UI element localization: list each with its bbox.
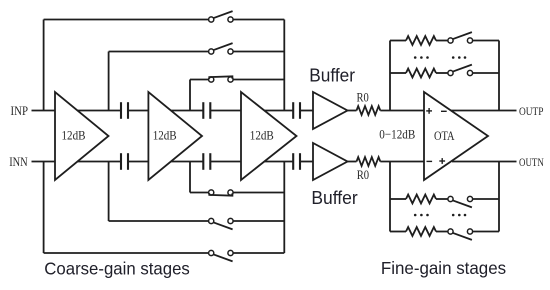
capacitor C2 (bottom, after stage 1) [120,153,122,170]
wire buffer B2 output [348,161,357,163]
capacitor C1 (top, after stage 1) [120,102,122,119]
wire INP lead [32,110,56,112]
amplifier A3 (12dB stage 3) [241,92,297,180]
wire top cap C5 to next stage [300,110,313,112]
wire tap1 vertical (INP to bypass row1) [43,20,45,111]
pin + (U1 bottom output polarity) [439,158,445,164]
switch S2 (top bypass row2) [209,43,234,54]
wire bypass row1 top right segment [233,19,284,21]
svg-text:Buffer: Buffer [309,66,355,86]
svg-text:OUTP: OUTP [519,104,544,118]
svg-text:Buffer: Buffer [311,188,357,208]
switch S3 (top bypass row3) [209,76,234,82]
wire bottom cap C2 to next stage [128,161,148,163]
wire feedback top branch1 left lead [390,40,406,42]
op-amp U1 OTA (fine-gain amplifier) [424,92,488,180]
wire tap1 vertical (INN to bypass row3 bottom) [43,162,45,254]
svg-text:OTA: OTA [434,128,455,143]
wire feedback bottom right vertical [498,162,500,232]
wire feedback bottom branch2 left lead [390,231,406,233]
wire feedback top branch2 left lead [390,72,406,74]
wire stage1 top output [77,110,121,112]
svg-text:12dB: 12dB [153,128,177,143]
buffer B2 (bottom) [313,143,348,180]
wire bypass row6 bottom right segment [233,192,284,194]
svg-text:12dB: 12dB [250,128,274,143]
wire stage2 top output [171,110,203,112]
resistor R0 (top) [357,106,381,115]
resistor Rf4 (bottom feedback branch2) [406,227,436,236]
ellipsis dots top feedback right [452,56,466,59]
wire feedback bottom branch2 right lead [473,231,499,233]
wire tap3 vertical (stage2 output to bypass row3) [189,80,191,111]
wire Rf3 to switch [436,198,448,200]
capacitor C5 (top, after stage 3) [292,102,294,119]
switch S5 (bottom bypass row) [209,218,234,229]
wire feedback top left vertical [389,41,391,111]
resistor Rf2 (top feedback branch2) [406,69,436,78]
wire INN lead [32,161,56,163]
wire bypass row2 top left segment [109,51,209,53]
svg-text:0−12dB: 0−12dB [379,127,415,142]
capacitor C4 (bottom, after stage 2) [202,153,204,170]
switch S4 (bottom bypass row) [209,250,234,261]
switch SF4 (bottom feedback branch2) [448,229,473,240]
ellipsis dots top feedback left [414,56,429,59]
svg-text:INN: INN [9,154,28,169]
svg-text:INP: INP [11,103,29,118]
wire tap2 vertical bottom [108,162,110,222]
svg-text:Coarse-gain stages: Coarse-gain stages [44,258,190,278]
wire top cap C1 to next stage [128,110,148,112]
wire Rf2 to switch [436,72,448,74]
switch SF3 (bottom feedback branch1) [448,196,473,207]
wire tap3 vertical bottom [189,162,191,193]
wire bottom cap C6 to next stage [300,161,313,163]
capacitor C6 (bottom, after stage 3) [292,153,294,170]
wire feedback top branch1 right lead [473,40,499,42]
wire stage1 bottom output [77,161,121,163]
wire feedback top branch2 right lead [473,72,499,74]
wire feedback bottom left vertical [389,162,391,232]
switch SF2 (top feedback branch2) [448,65,473,76]
resistor Rf1 (top feedback branch1) [406,36,436,45]
wire bypass row5 bottom right segment [233,220,284,222]
wire feedback bottom branch1 right lead [473,198,499,200]
svg-text:OUTN: OUTN [519,155,544,169]
resistor R0 (bottom) [357,157,381,166]
wire top cap C3 to next stage [210,110,241,112]
wire bypass row5 bottom left segment [109,220,209,222]
pin − (U1 bottom input) [427,160,433,162]
wire R0 bottom to OTA input [380,161,424,163]
wire stage3 top output [264,110,293,112]
wire stage3 bottom output [264,161,293,163]
svg-text:12dB: 12dB [62,128,86,143]
wire bypass row1 top left segment [44,19,209,21]
buffer B1 (top) [313,92,348,129]
wire bypass row6 bottom left segment [190,192,209,194]
amplifier A2 (12dB stage 2) [148,92,202,180]
wire R0 top to OTA input [380,110,424,112]
wire bypass row3 top right segment [233,79,284,81]
wire OUTN output [452,161,517,163]
svg-text:R0: R0 [357,90,369,104]
capacitor C3 (top, after stage 2) [202,102,204,119]
ellipsis dots bottom feedback right [452,214,466,217]
wire bottom cap C4 to next stage [210,161,241,163]
wire feedback bottom branch1 left lead [390,198,406,200]
resistor Rf3 (bottom feedback branch1) [406,195,436,204]
wire OUTP output [451,110,517,112]
wire bypass row4 bottom right segment [233,252,284,254]
wire Rf1 to switch [436,40,448,42]
wire bypass row2 top right segment [233,51,284,53]
switch S1 (top bypass row1) [209,11,234,22]
wire feedback top right vertical [498,41,500,111]
wire Rf4 to switch [436,231,448,233]
wire bypass row4 bottom left segment [44,252,209,254]
wire tap2 vertical (stage1 output to bypass row2) [108,52,110,111]
svg-text:R0: R0 [357,168,369,182]
pin − (U1 top output polarity) [441,110,447,112]
switch S6 (bottom bypass row) [209,190,234,196]
wire buffer B1 output [348,110,357,112]
svg-text:Fine-gain stages: Fine-gain stages [381,258,506,278]
amplifier A1 (12dB stage 1) [55,92,109,180]
ellipsis dots bottom feedback left [414,214,429,217]
wire bypass row3 top left segment [190,79,209,81]
wire bypass convergence vertical bottom [283,162,285,254]
wire stage2 bottom output [171,161,203,163]
wire bypass convergence vertical top [283,20,285,111]
pin + (U1 top input) [426,108,432,114]
switch SF1 (top feedback branch1) [448,32,473,43]
